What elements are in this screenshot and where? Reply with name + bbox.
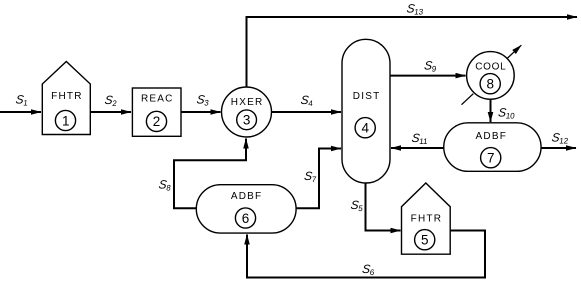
- wire S1: [0, 111, 41, 113]
- svg-text:DIST: DIST: [353, 91, 381, 102]
- wire S5: [366, 183, 401, 231]
- stream label S7: [303, 169, 318, 184]
- cooler utility inlet line: [462, 94, 474, 105]
- stream label S13: [406, 2, 425, 17]
- svg-text:S5: S5: [350, 198, 365, 213]
- fired heater FHTR 5: [402, 183, 451, 254]
- svg-text:ADBF: ADBF: [476, 131, 507, 142]
- svg-text:S1: S1: [15, 93, 30, 108]
- stream label S3: [196, 93, 211, 108]
- adsorber ADBF 7: [444, 123, 541, 172]
- distillation column DIST 4: [342, 39, 390, 183]
- svg-text:S12: S12: [551, 131, 570, 146]
- cooler utility outlet arrow: [507, 45, 522, 59]
- wire S4: [272, 111, 342, 113]
- svg-text:HXER: HXER: [231, 97, 264, 108]
- wire S3: [181, 111, 221, 113]
- stream label S2: [104, 93, 119, 108]
- svg-text:8: 8: [486, 77, 494, 92]
- cooler COOL 8: [467, 52, 515, 100]
- wire S6: [247, 231, 485, 278]
- wire S2: [90, 111, 131, 113]
- svg-text:ADBF: ADBF: [231, 191, 262, 202]
- svg-text:COOL: COOL: [475, 62, 506, 73]
- stream label S1: [15, 93, 30, 108]
- svg-text:S6: S6: [361, 262, 376, 277]
- svg-text:FHTR: FHTR: [411, 213, 442, 224]
- wire S12: [541, 147, 576, 149]
- svg-text:REAC: REAC: [141, 94, 174, 105]
- svg-text:FHTR: FHTR: [51, 91, 82, 102]
- fired heater FHTR 1: [42, 62, 90, 135]
- stream label S8: [158, 178, 173, 193]
- adsorber ADBF 6: [196, 185, 296, 233]
- wire S7: [296, 149, 341, 209]
- stream label S5: [350, 198, 365, 213]
- svg-text:5: 5: [421, 233, 429, 248]
- svg-text:S13: S13: [406, 2, 425, 17]
- svg-text:S10: S10: [497, 106, 516, 121]
- heat exchanger HXER 3: [222, 87, 272, 137]
- wire S10: [490, 99, 492, 122]
- svg-text:S4: S4: [300, 93, 315, 108]
- stream label S9: [423, 59, 438, 74]
- svg-text:3: 3: [243, 113, 251, 128]
- svg-text:S3: S3: [196, 93, 211, 108]
- svg-text:7: 7: [487, 151, 495, 166]
- svg-text:S8: S8: [158, 178, 173, 193]
- stream label S12: [551, 131, 570, 146]
- svg-text:S2: S2: [104, 93, 119, 108]
- reactor REAC 2: [132, 88, 181, 136]
- wire S11: [391, 147, 444, 149]
- svg-text:4: 4: [361, 121, 369, 136]
- wire S13 vertical from HXER top: [247, 17, 578, 87]
- svg-text:S7: S7: [303, 169, 318, 184]
- svg-text:S9: S9: [423, 59, 438, 74]
- svg-text:6: 6: [242, 211, 250, 226]
- wire S9: [390, 75, 466, 77]
- svg-text:1: 1: [62, 113, 70, 128]
- wire S8: [174, 139, 246, 209]
- stream label S4: [300, 93, 315, 108]
- svg-text:2: 2: [153, 114, 161, 129]
- stream label S11: [411, 131, 430, 146]
- stream label S6: [361, 262, 376, 277]
- svg-text:S11: S11: [411, 131, 430, 146]
- stream label S10: [497, 106, 516, 121]
